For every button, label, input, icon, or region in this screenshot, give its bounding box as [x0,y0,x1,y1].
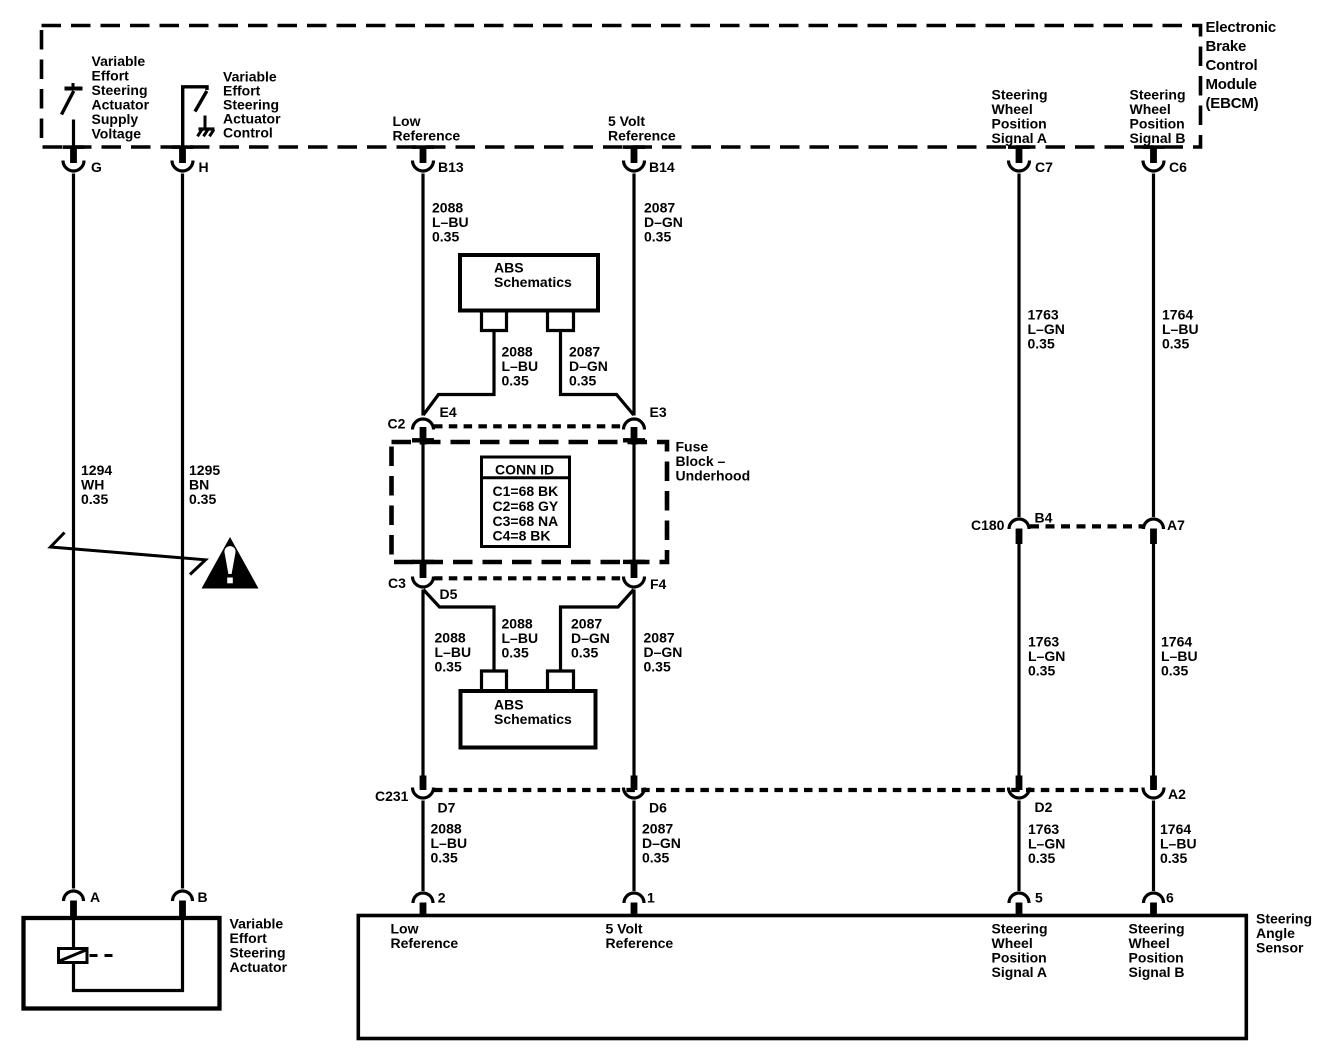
dashed adjustment mark of variable resistor [90,954,113,957]
inline connector C180 terminal A7 (cup above, pin below) [1144,519,1164,544]
label Steering Wheel Position Signal A (sensor pin 5) [992,921,1048,981]
connector line C231 (dotted) across harness [434,788,1142,792]
label Steering Angle Sensor [1256,911,1312,956]
fuse block underhood box, dashed outline [392,442,668,562]
svg-text:SteeringWheelPositionSignal A: SteeringWheelPositionSignal A [992,921,1048,981]
svg-text:5: 5 [1035,890,1043,906]
connector pin B13 of EBCM [412,145,464,175]
label C3 [388,575,406,591]
label Low Reference (EBCM pin B13 function) [393,113,461,144]
box ABS Schematics (lower reference) [461,691,596,748]
label wire 1763 L-GN 0.35 (middle) [1028,634,1065,679]
svg-text:1: 1 [647,890,655,906]
label F4 [650,576,667,592]
label C180 [971,517,1005,533]
label D7 [438,800,456,816]
note pointer zigzag line across wires 1294 and 1295 [51,533,206,575]
variable resistor element inside actuator [59,949,88,963]
label wire 1764 L-BU 0.35 (middle) [1161,634,1198,679]
label E3 [650,404,667,420]
svg-text:B14: B14 [649,159,675,175]
label wire 1763 L-GN 0.35 (lower) [1028,821,1065,866]
wire from connector F4 to lower ABS box right stub [561,590,634,671]
component pin 6 of steering angle sensor [1144,890,1175,917]
label 5 Volt Reference (sensor pin 1) [606,921,674,952]
label 5 Volt Reference (EBCM pin B14 function) [608,113,676,144]
inline connector C231 terminal A2 (pin and cup) [1143,776,1164,799]
label wire 2088 L-BU 0.35 (lower) [431,821,468,866]
svg-text:2: 2 [438,890,446,906]
connector pin H of EBCM [172,145,209,175]
wire segment from EBCM to connector C2 row (B14/right column) [632,174,635,416]
label CONN ID header [495,462,554,478]
stub terminal under upper ABS box, left [482,312,507,331]
box ABS Schematics (upper reference) [460,255,598,311]
label Low Reference (sensor pin 2) [391,921,459,952]
inline connector C180 terminal B4 (cup above, pin below) [1009,519,1029,544]
warning triangle note symbol [202,537,259,589]
wire 1764 from A7 to C231 A2 [1152,544,1155,776]
svg-text:CONN ID: CONN ID [495,462,554,478]
label E4 [440,404,457,420]
svg-text:A2: A2 [1168,786,1186,802]
inline connector C231 terminal D7 (pin and cup) [413,776,434,799]
label A2 [1168,786,1186,802]
label D5 [440,586,458,602]
inline connector C231 terminal D2 (pin and cup) [1009,776,1030,799]
inline connector C2 terminal E4 (female cup and pin) [412,419,434,445]
svg-text:B13: B13 [438,159,464,175]
wire 2088 from D5 to C231 D7 [421,590,424,776]
svg-text:A: A [90,889,100,905]
label Variable Effort Steering Actuator Supply Voltage [92,53,150,142]
label wire 2088 L-BU 0.35 (ABS lower left) [502,616,539,661]
svg-text:6: 6 [1166,890,1174,906]
wire inside actuator from resistor to pin B [74,917,183,991]
wire 2088 from D7 to sensor pin 2 [421,801,424,892]
label Fuse Block - Underhood [676,439,751,484]
label Steering Wheel Position Signal B (sensor pin 6) [1129,921,1185,981]
svg-text:C180: C180 [971,517,1005,533]
label C2 [388,416,406,432]
label ABS Schematics (upper) [494,260,572,291]
label wire 2088 L-BU 0.35 (B13 to E4) [432,199,469,244]
label wire 1763 L-GN 0.35 (upper) [1028,306,1065,351]
svg-text:VariableEffortSteeringActuator: VariableEffortSteeringActuator [230,916,288,976]
EBCM internal battery/supply-voltage symbol for pin G [62,83,83,147]
svg-text:D2: D2 [1035,799,1053,815]
svg-text:B: B [198,889,208,905]
svg-text:C6: C6 [1169,159,1187,175]
wire 1295 BN from EBCM pin H to actuator pin B [181,174,184,889]
label wire 1295 BN 0.35 [189,462,220,507]
svg-text:A7: A7 [1167,517,1185,533]
module box EBCM (Electronic Brake Control Module), dashed outline [42,26,1201,148]
component pin A of steering actuator [64,889,101,917]
svg-text:E4: E4 [440,404,457,420]
svg-text:SteeringWheelPositionSignal A: SteeringWheelPositionSignal A [992,87,1048,147]
component box Steering Angle Sensor [358,916,1246,1039]
svg-text:SteeringWheelPositionSignal B: SteeringWheelPositionSignal B [1129,921,1185,981]
wire 2087 from F4 to C231 D6 [632,590,635,776]
svg-text:VariableEffortSteeringActuator: VariableEffortSteeringActuatorControl [223,69,281,141]
label wire 2087 D-GN 0.35 (lower) [642,821,681,866]
svg-text:D7: D7 [438,800,456,816]
connector line C180 (dashed) between B4 and A7 [1030,524,1143,528]
component pin B of steering actuator [173,889,208,917]
label Variable Effort Steering Actuator Control [223,69,281,141]
label Variable Effort Steering Actuator [230,916,288,976]
EBCM internal switch-to-ground symbol for pin H [183,87,207,147]
label B4 [1035,510,1053,526]
label wire 2087 D-GN 0.35 (ABS lower right) [571,616,610,661]
wire from upper ABS box right stub to connector E3 [561,331,634,415]
label Electronic Brake Control Module (EBCM) [1206,19,1277,112]
svg-text:G: G [91,159,102,175]
label wire 1764 L-BU 0.35 (upper) [1162,306,1199,351]
label ABS Schematics (lower) [494,697,572,728]
connector line C3 (dotted) between D5 and F4 [434,576,623,580]
wire from connector D5 to lower ABS box left stub [423,590,494,671]
label wire 2088 L-BU 0.35 (D5 outer) [435,630,472,675]
wire 2087 from D6 to sensor pin 1 [632,801,635,892]
svg-text:C7: C7 [1035,159,1053,175]
label Steering Wheel Position Signal B (EBCM pin C6 function) [1130,87,1186,147]
svg-text:VariableEffortSteeringActuator: VariableEffortSteeringActuatorSupplyVolt… [92,53,150,142]
label wire 2088 L-BU 0.35 (ABS branch left) [502,344,539,389]
wire from upper ABS box left stub to connector E4 [423,331,494,415]
component pin 1 of steering angle sensor [624,890,655,917]
label wire 2087 D-GN 0.35 (F4 outer) [644,630,683,675]
wire 1763 from D2 to sensor pin 5 [1017,801,1020,892]
svg-text:C1=68 BKC2=68 GYC3=68 NAC4=8 B: C1=68 BKC2=68 GYC3=68 NAC4=8 BK [493,483,559,543]
connector line C2 (dotted) between E4 and E3 [434,424,623,428]
fuse block pin at C3 left (male pin and cup) [412,560,434,587]
connector pin G of EBCM [63,145,103,175]
connector pin B14 of EBCM [623,145,675,175]
wire 1764 from A2 to sensor pin 6 [1152,801,1155,892]
CONN ID table box [482,457,570,547]
label Steering Wheel Position Signal A (EBCM pin C7 function) [992,87,1048,147]
svg-text:SteeringWheelPositionSignal B: SteeringWheelPositionSignal B [1130,87,1186,147]
connector pin C7 of EBCM [1008,145,1053,175]
label wire 2087 D-GN 0.35 (ABS branch right) [569,344,608,389]
wires inside fuse block [423,445,634,561]
wire 1764 from EBCM C6 to connector C180 A7 [1152,174,1155,518]
label wire 1294 WH 0.35 [81,462,112,507]
label wire 1764 L-BU 0.35 (lower) [1160,821,1197,866]
inline connector C231 terminal D6 (pin and cup) [624,776,645,799]
chassis ground symbol inside EBCM [198,129,215,136]
label D2 [1035,799,1053,815]
svg-text:F4: F4 [650,576,667,592]
svg-text:C2: C2 [388,416,406,432]
stub terminal above lower ABS box, right [548,671,574,690]
svg-text:D5: D5 [440,586,458,602]
label connector id rows [493,483,559,543]
stub terminal under upper ABS box, right [548,312,574,331]
wire 1294 WH from EBCM pin G to actuator pin A [72,174,75,889]
svg-text:H: H [199,159,209,175]
stub terminal above lower ABS box, left [482,671,507,690]
component pin 5 of steering angle sensor [1009,890,1043,917]
inline connector C2 terminal E3 (female cup and pin) [623,419,645,445]
wire inside actuator from pin A to variable resistor [72,917,75,949]
wire 1763 from EBCM C7 to connector C180 B4 [1017,174,1020,518]
label C231 [375,788,409,804]
svg-text:C3: C3 [388,575,406,591]
fuse block pin at F4 right (male pin and cup) [623,560,645,587]
component pin 2 of steering angle sensor [413,890,446,917]
svg-text:D6: D6 [649,800,667,816]
svg-text:C231: C231 [375,788,409,804]
svg-text:B4: B4 [1035,510,1053,526]
label D6 [649,800,667,816]
svg-text:E3: E3 [650,404,667,420]
component box Variable Effort Steering Actuator [24,918,220,1009]
label wire 2087 D-GN 0.35 (B14 to E3) [644,199,683,244]
wire 1763 from B4 to C231 D2 [1017,544,1020,776]
connector pin C6 of EBCM [1143,145,1188,175]
wire segment from EBCM to connector C2 row (B13/left column) [421,174,424,416]
label A7 [1167,517,1185,533]
